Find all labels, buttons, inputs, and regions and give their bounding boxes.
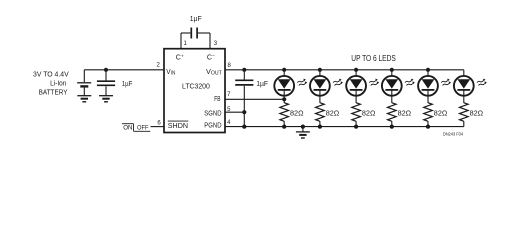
svg-text:SGND: SGND (204, 110, 221, 117)
battery B1 (77, 70, 91, 96)
capacitor C3 output 1uF (235, 70, 253, 127)
ON/OFF drive annotation (122, 124, 150, 132)
op IC U1 LTC3200 box (164, 49, 225, 133)
svg-text:82Ω: 82Ω (362, 109, 376, 118)
LED D3 chain (346, 68, 379, 129)
node dot VOUT/C3 (242, 68, 246, 72)
ground at PGND rail (296, 127, 310, 138)
capacitor C1 input 1uF (97, 70, 115, 96)
svg-text:ON: ON (123, 125, 133, 132)
svg-text:1µF: 1µF (190, 14, 202, 23)
svg-text:1µF: 1µF (256, 79, 268, 88)
svg-text:UP TO 6 LEDS: UP TO 6 LEDS (351, 54, 396, 63)
svg-text:LTC3200: LTC3200 (182, 82, 210, 91)
node dot PGND/C3 (242, 125, 246, 129)
svg-text:Li-Ion: Li-Ion (50, 78, 66, 87)
wire PGND bottom rail from pin 4 to R6 (225, 126, 464, 128)
node dot PGND/ground tap (301, 125, 305, 129)
svg-text:OFF: OFF (137, 125, 149, 132)
svg-text:FB: FB (214, 96, 220, 103)
wire FB line from pin 7 to LED1/R1 junction (225, 98, 284, 100)
svg-text:BATTERY: BATTERY (39, 88, 68, 97)
svg-text:82Ω: 82Ω (290, 109, 304, 118)
svg-text:82Ω: 82Ω (326, 109, 340, 118)
wire SGND line from pin 5 (225, 111, 244, 113)
svg-text:DN243 F04: DN243 F04 (443, 132, 464, 137)
ground under C1 (99, 96, 113, 102)
LED D6 chain (454, 70, 487, 127)
svg-text:PGND: PGND (204, 122, 221, 129)
node dot SGND/C3 (242, 110, 246, 114)
svg-text:82Ω: 82Ω (398, 109, 412, 118)
wire SHDN from ON/OFF to pin 6 (151, 126, 165, 128)
ground under battery (77, 96, 91, 102)
battery label (33, 69, 69, 96)
LED D1 chain (274, 68, 307, 129)
node dot VIN/C1 (104, 68, 108, 72)
svg-text:3V TO 4.4V: 3V TO 4.4V (33, 69, 69, 78)
wire VIN rail from battery to pin 2 (84, 69, 164, 71)
svg-text:1µF: 1µF (122, 79, 133, 88)
svg-text:82Ω: 82Ω (470, 109, 484, 118)
LED D4 chain (382, 68, 415, 129)
LED D5 chain (418, 68, 451, 129)
IC pin name SHDN with overbar (168, 121, 189, 130)
wire VOUT rail from pin 8 to LED6 (225, 69, 464, 71)
svg-text:82Ω: 82Ω (434, 109, 448, 118)
capacitor C2 flying 1uF (181, 28, 210, 49)
LED D2 chain (310, 68, 343, 129)
svg-text:SHDN: SHDN (168, 123, 188, 130)
